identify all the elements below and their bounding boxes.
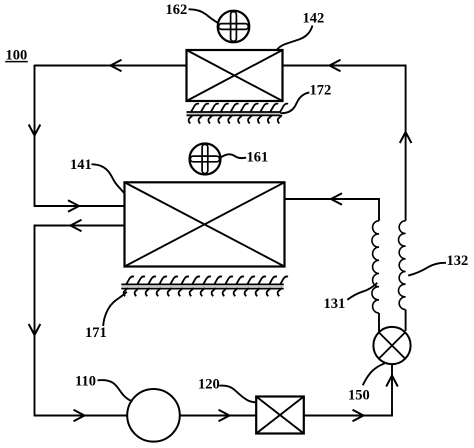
- arrow right before riser: [353, 410, 364, 422]
- label 172 leader: [281, 92, 310, 113]
- wire valve to coil 132: [405, 310, 407, 332]
- wire left vertical lower: [34, 225, 36, 417]
- arrow left out of 141: [71, 220, 82, 232]
- label 131 leader: [347, 283, 377, 300]
- label 162: [166, 2, 188, 18]
- arrow right to compressor: [74, 410, 85, 422]
- label 132 leader: [408, 263, 446, 276]
- arrow right into 141: [68, 200, 79, 212]
- coil 131: [372, 221, 379, 313]
- wire compressor to 120: [180, 415, 257, 417]
- arrow up on right riser: [400, 132, 412, 143]
- fan 162: [218, 11, 250, 43]
- label 100: [5, 48, 28, 64]
- label 161: [247, 150, 269, 166]
- svg-text:161: 161: [247, 150, 269, 166]
- wire top-left horizontal: [35, 65, 187, 67]
- arrow left into 142 right port: [330, 60, 341, 72]
- label 162 leader: [189, 9, 219, 23]
- label 120: [198, 377, 220, 393]
- wire bottom to compressor: [34, 415, 128, 417]
- arrow down on left vertical lower: [29, 324, 41, 335]
- arrow up into valve 150: [386, 376, 398, 387]
- heater 171 finned element: [121, 276, 288, 296]
- wire riser to valve 150: [391, 364, 393, 417]
- svg-text:131: 131: [324, 296, 346, 312]
- expansion valve 150: [373, 327, 410, 364]
- compressor 110: [127, 389, 180, 442]
- label 150: [348, 388, 370, 404]
- label 171: [85, 325, 107, 341]
- wire 120 to riser: [304, 415, 393, 417]
- svg-text:162: 162: [166, 2, 188, 18]
- wire coil 132 top to top-right corner: [405, 65, 407, 221]
- label 131: [324, 296, 346, 312]
- heater 172 finned element: [187, 104, 289, 124]
- svg-text:171: 171: [85, 325, 107, 341]
- wire valve to coil 131: [378, 313, 380, 333]
- label 142: [303, 11, 325, 27]
- arrow right to 120: [219, 410, 230, 422]
- label 110 leader: [98, 380, 133, 402]
- svg-text:172: 172: [310, 83, 332, 99]
- label 171 leader: [103, 292, 127, 326]
- svg-text:142: 142: [303, 11, 325, 27]
- label 132: [447, 253, 469, 269]
- svg-text:141: 141: [70, 157, 92, 173]
- svg-text:132: 132: [447, 253, 469, 269]
- label 120 leader: [219, 386, 256, 403]
- heat exchanger 142: [187, 50, 283, 101]
- coil 132: [399, 221, 406, 310]
- label 161 leader: [221, 154, 247, 158]
- heat exchanger 141: [125, 182, 285, 266]
- label 110: [75, 374, 96, 390]
- wire out of 141 lower-left port: [34, 225, 125, 227]
- arrow down on left vertical upper: [29, 125, 41, 136]
- wire coil 131 top to 141: [284, 198, 380, 221]
- arrow left on top-left wire: [111, 60, 122, 72]
- label 150 leader: [363, 363, 385, 385]
- label 141: [70, 157, 92, 173]
- wire top-right horizontal: [282, 65, 406, 67]
- label 141 leader: [92, 164, 125, 193]
- fan 161: [190, 144, 221, 175]
- throttling device 120: [256, 397, 304, 434]
- wire left vertical upper: [34, 65, 36, 207]
- arrow left into 141 right port: [331, 193, 342, 205]
- label 142 leader: [277, 26, 313, 51]
- svg-text:110: 110: [75, 374, 96, 390]
- label 172: [310, 83, 332, 99]
- svg-text:150: 150: [348, 388, 370, 404]
- svg-text:120: 120: [198, 377, 220, 393]
- wire into 141 upper-left port: [34, 205, 125, 207]
